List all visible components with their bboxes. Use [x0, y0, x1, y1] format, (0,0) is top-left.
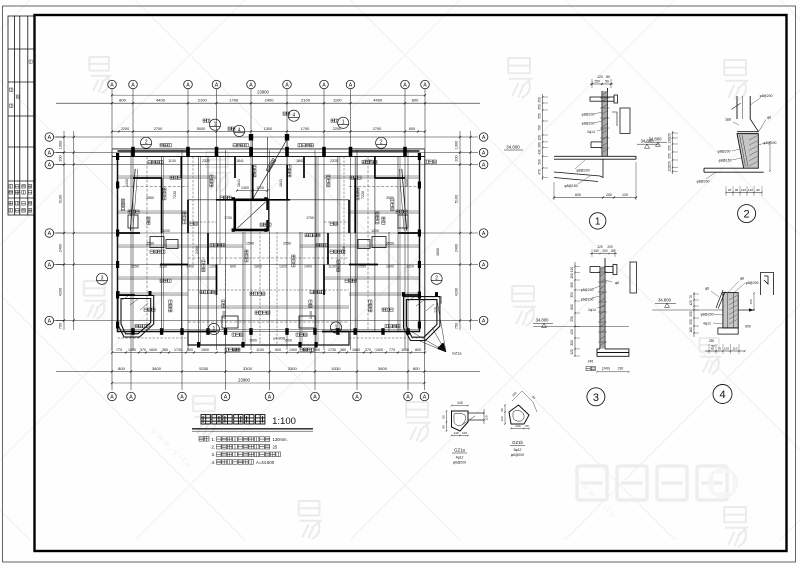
watermark yi glyphs: [206, 152, 229, 192]
detail 3 left dim chain: [574, 262, 576, 356]
gz1a bottom dim: [452, 435, 469, 437]
svg-text:1130: 1130: [364, 159, 372, 163]
svg-text:GZ1b: GZ1b: [512, 440, 523, 445]
detail 2 corbel body: [737, 134, 758, 169]
detail 2 slab leader: [706, 172, 716, 179]
svg-text:4200: 4200: [455, 288, 459, 296]
svg-text:34.800: 34.800: [649, 137, 662, 142]
interior dashed beams: [118, 157, 420, 346]
svg-text:φ8@200: φ8@200: [718, 150, 731, 154]
svg-text:90: 90: [442, 425, 446, 429]
svg-text:1320: 1320: [279, 264, 287, 268]
bay window hatch marks: [122, 296, 434, 311]
detail 3 wall: [600, 258, 605, 349]
svg-text:250: 250: [538, 97, 542, 103]
svg-text:3300: 3300: [288, 366, 298, 371]
svg-text:350: 350: [538, 104, 542, 110]
elevator core door gap: [266, 210, 269, 220]
svg-text:φ6@200: φ6@200: [453, 461, 466, 465]
detail 3 wall fill: [600, 267, 604, 349]
svg-text:1200: 1200: [371, 229, 379, 233]
svg-text:25: 25: [728, 188, 732, 192]
right side rotated dim: [434, 296, 443, 313]
svg-text:1800: 1800: [386, 264, 394, 268]
svg-text:4400: 4400: [373, 98, 383, 103]
svg-text:A: A: [224, 395, 228, 401]
detail 1 wall hatch: [600, 92, 610, 153]
secondary top dimension left: [112, 131, 425, 133]
svg-text:φ8: φ8: [740, 277, 744, 281]
svg-text:A: A: [48, 263, 52, 269]
svg-text:250: 250: [709, 339, 715, 343]
svg-text:3300: 3300: [243, 366, 253, 371]
svg-text:2: 2: [145, 140, 148, 146]
svg-text:250: 250: [689, 311, 693, 317]
gz1a left dim: [446, 411, 448, 431]
svg-text:3600: 3600: [439, 296, 443, 304]
watermark logo circles: [709, 469, 737, 497]
left dimension chain: [63, 131, 65, 330]
extra dim texts: [146, 159, 394, 343]
svg-text:80: 80: [606, 75, 610, 79]
elevator core: [235, 200, 268, 230]
bottom small dimension row: [112, 352, 425, 354]
svg-text:250: 250: [668, 153, 672, 159]
detail 3 foot: [597, 349, 629, 356]
svg-text:120: 120: [597, 245, 603, 249]
svg-text:A: A: [285, 83, 289, 89]
svg-text:350: 350: [570, 292, 574, 298]
svg-text:1841: 1841: [237, 179, 241, 187]
gz1b bottom dim: [511, 428, 529, 430]
svg-text:65: 65: [711, 347, 715, 351]
svg-text:200: 200: [59, 155, 63, 161]
secondary top dimension right: [264, 127, 415, 131]
title block bottom text rows: [9, 185, 32, 189]
stair label rotated: [266, 158, 276, 172]
svg-text:150: 150: [570, 273, 574, 279]
svg-text:1600: 1600: [352, 348, 360, 352]
svg-text:7230: 7230: [173, 191, 177, 199]
svg-text:1: 1: [335, 324, 338, 330]
detail 4 level line: [652, 309, 755, 311]
svg-text:2100: 2100: [198, 98, 208, 103]
svg-text:2: 2: [744, 209, 750, 221]
detail 2 left dim chain: [672, 131, 674, 174]
title block tiny labels: [10, 88, 13, 91]
detail 3 top dim: [590, 253, 617, 255]
detail 4 face slant lines: [716, 290, 725, 309]
svg-text:A: A: [313, 395, 317, 401]
svg-text:725: 725: [434, 307, 438, 313]
svg-text:800: 800: [119, 98, 126, 103]
svg-text:A: A: [131, 83, 135, 89]
svg-text:240: 240: [457, 401, 463, 405]
detail 2 slab: [704, 168, 764, 172]
svg-text:25: 25: [273, 445, 278, 450]
drawing title: [201, 415, 210, 424]
detail 1 bottom dim: [554, 197, 636, 199]
svg-text:φ8@200: φ8@200: [581, 288, 594, 292]
rotated room labels: [121, 199, 124, 211]
detail 2 right flare: [750, 119, 758, 132]
svg-text:2700: 2700: [154, 127, 162, 131]
detail 2 left leaders: [732, 122, 741, 160]
vertical grid lines from top axes: [112, 89, 425, 350]
detail 3 level line: [533, 325, 629, 327]
svg-text:3600: 3600: [378, 366, 388, 371]
detail 4 hatch: [729, 296, 737, 325]
svg-text:A: A: [48, 163, 52, 169]
svg-text:2950: 2950: [283, 242, 291, 246]
svg-text:A: A: [322, 83, 326, 89]
svg-text:120: 120: [570, 349, 574, 355]
right wing outline: [349, 151, 420, 332]
vertical grid lines from bottom axes: [112, 150, 425, 390]
top beam line lower: [112, 156, 425, 158]
svg-text:1730: 1730: [328, 348, 336, 352]
svg-text:2: 2: [435, 276, 438, 282]
svg-text:800: 800: [413, 366, 420, 371]
gz1a top dim: [452, 405, 469, 407]
svg-text:A: A: [406, 395, 410, 401]
svg-text:770: 770: [116, 348, 122, 352]
svg-text:2φ14: 2φ14: [587, 130, 595, 134]
svg-text:A: A: [186, 83, 190, 89]
svg-text:5φ12: 5φ12: [514, 448, 522, 452]
svg-text:600: 600: [745, 325, 751, 329]
svg-text:φ8@200: φ8@200: [760, 94, 773, 98]
svg-text:4400: 4400: [156, 98, 166, 103]
detail 1 slab leader labels: [575, 160, 590, 184]
fixture boxes left wing: [128, 215, 178, 249]
svg-text:3430: 3430: [125, 179, 129, 187]
svg-text:φ6@200: φ6@200: [581, 298, 594, 302]
svg-text:160: 160: [689, 327, 693, 333]
svg-text:70: 70: [718, 347, 722, 351]
svg-text:φ6@200: φ6@200: [511, 453, 524, 457]
extra beam labels: [170, 176, 181, 179]
svg-text:φ8: φ8: [767, 116, 771, 120]
svg-text:4: 4: [719, 389, 725, 401]
detail 1 top ledge: [590, 95, 618, 103]
svg-text:2200: 2200: [121, 127, 129, 131]
svg-text:1: 1: [214, 122, 217, 128]
gz1b slanted dims: [512, 391, 537, 412]
svg-text:4φ12: 4φ12: [456, 456, 464, 460]
svg-text:A: A: [349, 83, 353, 89]
detail 3 wall hatch: [598, 267, 607, 346]
svg-text:φ8@200: φ8@200: [582, 113, 595, 117]
detail 4 right arrow: [738, 309, 754, 311]
svg-text:50: 50: [442, 415, 446, 419]
svg-text:1300: 1300: [455, 141, 459, 149]
svg-text:1600: 1600: [149, 348, 157, 352]
svg-text:1130: 1130: [168, 159, 176, 163]
svg-text:φ8@200: φ8@200: [746, 281, 759, 285]
svg-text:120: 120: [485, 415, 489, 420]
detail 4 left dim chain: [693, 292, 695, 337]
beam labels top: [233, 144, 248, 147]
svg-text:800: 800: [118, 366, 125, 371]
svg-text:250: 250: [689, 319, 693, 325]
elevator core inner diagonal: [238, 202, 266, 228]
bay window bottom right: [404, 297, 440, 341]
svg-text:5100: 5100: [455, 195, 459, 203]
svg-text:A: A: [48, 135, 52, 141]
svg-text:80: 80: [611, 249, 615, 253]
svg-text:A: A: [482, 151, 486, 157]
svg-text:2400: 2400: [309, 311, 313, 319]
svg-text:250: 250: [668, 145, 672, 151]
svg-text:750: 750: [59, 323, 63, 329]
gz leader lines: [407, 300, 446, 352]
svg-text:A=34.800: A=34.800: [256, 460, 275, 465]
svg-text:1300: 1300: [375, 348, 383, 352]
svg-text:1200: 1200: [162, 229, 170, 233]
svg-text:1400: 1400: [304, 264, 312, 268]
svg-text:3.: 3.: [212, 452, 216, 457]
detail 2 corbel top lines: [737, 132, 759, 134]
svg-text:770: 770: [389, 348, 395, 352]
svg-text:1730: 1730: [174, 348, 182, 352]
svg-text:2550: 2550: [146, 196, 154, 200]
detail 2 bottom dims: [726, 192, 762, 194]
svg-text:34.600: 34.600: [506, 145, 520, 150]
svg-text:1841: 1841: [236, 159, 244, 163]
svg-text:1100: 1100: [333, 98, 342, 103]
svg-text:700: 700: [538, 125, 542, 131]
svg-text:50: 50: [605, 80, 609, 84]
svg-text:φ8@200: φ8@200: [576, 169, 589, 173]
svg-text:1700: 1700: [306, 216, 314, 220]
gz1a right dim: [483, 409, 485, 424]
left wing outline: [118, 151, 189, 332]
svg-text:A: A: [110, 395, 114, 401]
svg-text:GZ1a: GZ1a: [452, 352, 462, 356]
svg-text:A: A: [482, 163, 486, 169]
svg-text:550: 550: [538, 113, 542, 119]
svg-text:5330: 5330: [332, 366, 342, 371]
interior vertical beams: [162, 137, 398, 345]
svg-text:23900: 23900: [257, 90, 269, 95]
top axis bubbles: [108, 80, 430, 89]
svg-text:95: 95: [756, 188, 760, 192]
svg-text:3: 3: [593, 392, 599, 404]
svg-text:120: 120: [689, 300, 693, 306]
svg-text:A: A: [249, 83, 253, 89]
svg-text:φ8@200: φ8@200: [701, 313, 714, 317]
title block table: [8, 16, 35, 215]
svg-text:800: 800: [415, 348, 421, 352]
detail 2 right leader: [750, 98, 760, 105]
svg-text:2700: 2700: [373, 127, 381, 131]
left axis bubbles: [45, 133, 54, 325]
svg-text:150: 150: [593, 249, 599, 253]
extra dashed interior lines: [118, 157, 420, 346]
svg-text:A: A: [129, 395, 133, 401]
svg-text:φ8@200: φ8@200: [697, 180, 710, 184]
svg-text:420: 420: [570, 329, 574, 335]
svg-text:1500: 1500: [201, 348, 209, 352]
svg-text:4φ12: 4φ12: [703, 322, 711, 326]
svg-text:1500: 1500: [249, 339, 257, 343]
svg-text:φ8: φ8: [705, 287, 709, 291]
svg-text:100: 100: [462, 431, 467, 435]
svg-text:A: A: [482, 231, 486, 237]
thick shear wall segments: [118, 157, 420, 332]
svg-text:3600: 3600: [152, 366, 162, 371]
svg-text:2800: 2800: [254, 264, 262, 268]
detail 4 right dim: [753, 293, 755, 310]
svg-text:800: 800: [187, 348, 193, 352]
bay window bottom left: [118, 296, 154, 338]
svg-text:230: 230: [618, 367, 624, 371]
svg-text:2550: 2550: [131, 264, 139, 268]
svg-text:1100: 1100: [256, 348, 264, 352]
svg-text:1: 1: [342, 120, 345, 126]
svg-text:2φ8: 2φ8: [725, 118, 731, 122]
svg-text:120: 120: [622, 193, 628, 197]
svg-text:120: 120: [748, 188, 753, 192]
rotated interior dims: [125, 179, 440, 319]
svg-text:150: 150: [594, 80, 600, 84]
svg-text:1700: 1700: [229, 98, 239, 103]
svg-text:23900: 23900: [238, 378, 250, 383]
detail 1 bubble: [590, 213, 606, 229]
bottom axis bubbles: [108, 392, 429, 401]
svg-text:200: 200: [607, 245, 613, 249]
svg-text:470: 470: [538, 169, 542, 175]
svg-text:140: 140: [453, 431, 458, 435]
svg-text:φ8@150: φ8@150: [719, 159, 732, 163]
svg-text:1100: 1100: [401, 348, 409, 352]
svg-text:A: A: [48, 151, 52, 157]
svg-text:A: A: [110, 83, 114, 89]
svg-text:130: 130: [668, 138, 672, 144]
svg-text:4: 4: [238, 128, 241, 134]
svg-text:A: A: [355, 395, 359, 401]
svg-text:120: 120: [741, 188, 746, 192]
svg-text:600: 600: [570, 304, 574, 310]
svg-text:2400: 2400: [222, 311, 226, 319]
svg-text:2.: 2.: [212, 445, 216, 450]
svg-text:370: 370: [140, 348, 146, 352]
detail 2 corbel hatch: [749, 136, 758, 167]
svg-text:370: 370: [365, 348, 371, 352]
svg-text:240: 240: [515, 424, 520, 428]
svg-text:1: 1: [595, 217, 601, 228]
svg-text:120: 120: [724, 347, 729, 351]
svg-text:φ8@200: φ8@200: [582, 122, 595, 126]
detail 3 top ledge: [590, 265, 617, 275]
svg-text:2400: 2400: [59, 244, 63, 252]
detail 2 corbel rebar lines: [740, 135, 749, 167]
svg-text:120: 120: [668, 133, 672, 139]
svg-text:1841: 1841: [279, 179, 283, 187]
gz1b column section: [509, 405, 529, 424]
detail 1 top dim: [590, 83, 613, 85]
svg-text:300: 300: [570, 340, 574, 346]
svg-text:1700: 1700: [301, 127, 309, 131]
beam pair lines: [118, 157, 420, 346]
detail 2 column inner line: [742, 96, 744, 119]
svg-text:2320: 2320: [202, 159, 210, 163]
gz1a wall stub: [468, 413, 484, 420]
detail 1 wall leaders: [594, 112, 604, 131]
svg-text:120: 120: [500, 416, 504, 421]
svg-text:1841: 1841: [296, 159, 304, 163]
svg-text:5000: 5000: [197, 127, 205, 131]
svg-text:1700: 1700: [224, 216, 232, 220]
svg-text:7230: 7230: [361, 191, 365, 199]
gz leader arrowheads: [438, 343, 447, 352]
svg-text:2550: 2550: [386, 196, 394, 200]
extra rotated labels: [202, 260, 205, 272]
note line 1: [217, 437, 270, 442]
svg-text:120mm.: 120mm.: [273, 437, 288, 442]
detail 3 right profile: [630, 262, 637, 293]
interior horizontal beams: [118, 178, 420, 332]
svg-text:220: 220: [668, 161, 672, 167]
svg-text:A: A: [215, 83, 219, 89]
svg-text:A: A: [180, 395, 184, 401]
svg-text:245: 245: [588, 359, 594, 363]
svg-text:1300: 1300: [128, 348, 136, 352]
svg-text:2320: 2320: [330, 159, 338, 163]
svg-text:A: A: [482, 135, 486, 141]
svg-text:380: 380: [340, 348, 346, 352]
detail 2 column top: [737, 96, 750, 119]
svg-text:GZ1a: GZ1a: [454, 448, 465, 453]
top beam line upper: [112, 148, 425, 150]
svg-text:A: A: [482, 319, 486, 325]
detail 4 foot: [718, 328, 738, 334]
gz1a stub diagonal: [462, 416, 475, 425]
svg-text:1: 1: [213, 326, 216, 332]
svg-text:3600: 3600: [436, 248, 440, 256]
svg-text:3: 3: [101, 276, 104, 282]
svg-text:70: 70: [689, 295, 693, 299]
svg-text:90: 90: [500, 408, 504, 412]
svg-text:1500: 1500: [284, 339, 292, 343]
svg-text:φ8: φ8: [615, 281, 619, 285]
svg-text:120: 120: [538, 135, 542, 141]
detail 1 left dim chain: [542, 94, 544, 180]
detail 3 mid leaders: [592, 280, 612, 308]
svg-text:1320: 1320: [406, 264, 414, 268]
svg-text:1500: 1500: [246, 242, 254, 246]
svg-text:750: 750: [455, 323, 459, 329]
svg-text:2: 2: [380, 140, 383, 146]
svg-text:590: 590: [538, 159, 542, 165]
svg-text:280: 280: [538, 142, 542, 148]
left axis stems: [54, 137, 64, 321]
svg-text:3430: 3430: [405, 179, 409, 187]
svg-text:120: 120: [597, 75, 603, 79]
svg-text:120: 120: [668, 166, 672, 172]
svg-text:1.: 1.: [212, 437, 216, 442]
svg-text:600: 600: [230, 264, 236, 268]
left wing slant wall: [130, 169, 135, 231]
svg-text:2100: 2100: [301, 98, 311, 103]
svg-text:A: A: [268, 395, 272, 401]
svg-text:200: 200: [602, 249, 608, 253]
svg-text:95: 95: [735, 188, 739, 192]
svg-text:4200: 4200: [59, 288, 63, 296]
svg-text:600: 600: [409, 127, 415, 131]
detail 3 bubble: [587, 388, 605, 406]
